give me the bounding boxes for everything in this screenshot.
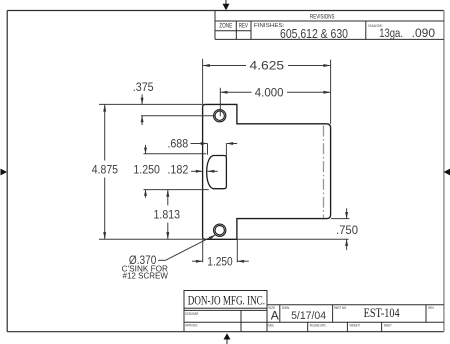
svg-text:REV: REV: [428, 305, 434, 310]
bend centerline: [323, 126, 325, 218]
dimension 4.875: [92, 104, 118, 239]
gauge value 13ga. .090: [379, 28, 435, 40]
svg-text:.375: .375: [133, 80, 154, 94]
gauge label: [368, 23, 383, 28]
approved label: [185, 322, 197, 327]
part number label and value EST-104: [334, 305, 400, 320]
zone marker left: [1, 169, 8, 176]
dimension 1.813: [154, 190, 181, 240]
svg-text:DON-JO MFG. INC.: DON-JO MFG. INC.: [188, 293, 265, 308]
extension line: right edge up: [330, 60, 332, 124]
svg-text:PART NO.: PART NO.: [334, 305, 347, 310]
svg-text:.182: .182: [167, 162, 188, 176]
svg-text:1.813: 1.813: [154, 207, 181, 221]
dimension 1.250 cutout height: [133, 145, 160, 198]
drawn date label and value: [282, 305, 326, 322]
svg-text:#12 SCREW: #12 SCREW: [123, 272, 169, 281]
rev column label: [239, 24, 248, 30]
zone marker top: [223, 0, 230, 10]
svg-text:13ga.: 13ga.: [379, 28, 403, 40]
svg-text:1.250: 1.250: [207, 255, 233, 269]
dimension .182: [167, 162, 217, 176]
dimension 1.250 bottom: [192, 255, 249, 269]
extension line: cutout bulge tangent vertical (.688 left): [207, 144, 209, 155]
scale label: [266, 323, 274, 328]
extension line: step edge down (1.250 bottom right): [236, 239, 238, 262]
extension line: left edge down (1.250 bottom left): [202, 239, 204, 262]
svg-text:APPROVED: APPROVED: [185, 322, 197, 327]
svg-text:DESIGNER: DESIGNER: [185, 311, 198, 316]
weight label: [350, 323, 361, 328]
svg-text:ZONE: ZONE: [219, 24, 232, 30]
svg-text:A: A: [271, 309, 279, 323]
svg-text:EST-104: EST-104: [364, 305, 400, 320]
svg-text:5/17/04: 5/17/04: [291, 310, 326, 322]
title block grid: [184, 305, 444, 332]
part outline: [203, 104, 331, 239]
latch cutout: [207, 156, 227, 189]
svg-text:.090: .090: [412, 28, 435, 40]
extension line: cutout right vertical (.688 right): [225, 144, 227, 157]
rev label: [428, 305, 434, 310]
zone marker bottom: [224, 333, 231, 344]
dimension .375: [133, 80, 154, 125]
dimension 4.000: [220, 85, 330, 99]
svg-text:4.000: 4.000: [255, 85, 284, 99]
release date label: [310, 323, 326, 328]
svg-text:.688: .688: [167, 137, 188, 151]
svg-text:DWN.: DWN.: [282, 305, 290, 310]
extension line: part bottom edge left + right: [99, 238, 349, 240]
dimension .750: [336, 208, 358, 250]
sheet label: [384, 323, 392, 328]
extension line: cutout bottom (1.250 mid / 1.813): [144, 189, 209, 191]
extension line: part top edge to left: [99, 103, 203, 105]
finishes label: [254, 23, 285, 29]
title block: DON-JO MFG. INC. logo box: [184, 291, 267, 309]
size label and value A: [268, 305, 279, 323]
designer label: [185, 311, 198, 316]
revisions table header text: [310, 14, 335, 20]
svg-text:4.875: 4.875: [92, 162, 118, 176]
dimension 4.625: [203, 59, 331, 73]
leader and note for countersunk hole: [122, 235, 216, 281]
svg-text:WEIGHT: WEIGHT: [350, 323, 361, 328]
extension line: wide body bottom to right (.750 top): [331, 218, 349, 220]
svg-text:REV: REV: [239, 24, 248, 30]
svg-text:.750: .750: [336, 223, 358, 237]
svg-text:RELEASE DATE: RELEASE DATE: [310, 323, 326, 328]
svg-text:REVISIONS: REVISIONS: [310, 14, 335, 20]
screw hole bottom (countersunk): [214, 224, 226, 236]
zone marker right: [444, 169, 450, 176]
dimension .688: [167, 137, 237, 151]
extension line: cutout top (1.250 mid): [144, 153, 207, 155]
extension line: top-left corner up (4.625 left): [202, 59, 204, 105]
svg-text:605,612 & 630: 605,612 & 630: [280, 26, 348, 41]
extension line: top hole center to left: [141, 115, 215, 117]
svg-text:4.625: 4.625: [250, 59, 285, 73]
svg-text:SCALE: SCALE: [266, 323, 274, 328]
svg-text:1.250: 1.250: [133, 162, 160, 176]
revisions table grid: [215, 11, 444, 40]
finishes value 605,612 & 630: [280, 26, 348, 41]
extension line: hole center up (4.000 left): [219, 88, 221, 117]
zone column label: [219, 24, 232, 30]
screw hole top (countersunk): [214, 110, 226, 122]
svg-text:SHEET: SHEET: [384, 323, 392, 328]
